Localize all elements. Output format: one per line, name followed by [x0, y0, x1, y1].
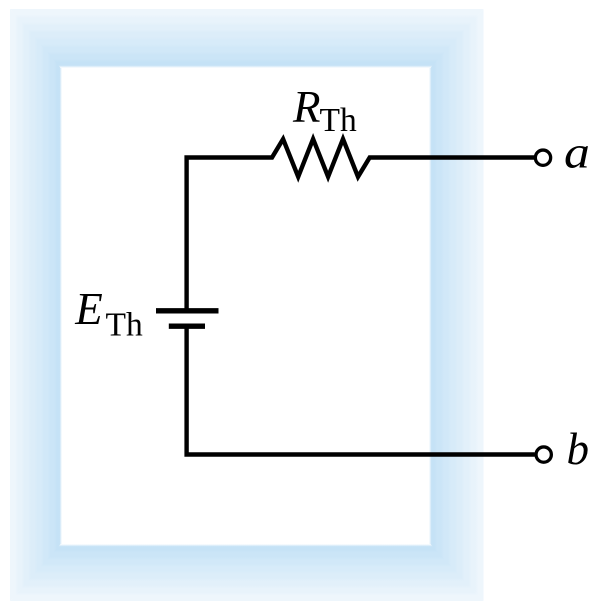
battery E_Th short plate — [169, 324, 205, 329]
frame right band — [429, 9, 484, 601]
svg-text:E: E — [74, 284, 103, 334]
battery E_Th long plate — [156, 308, 219, 313]
svg-text:Th: Th — [106, 307, 143, 344]
frame bottom band — [10, 544, 484, 601]
terminal b circle — [536, 447, 551, 462]
svg-text:a: a — [564, 129, 590, 178]
frame top band — [10, 9, 484, 68]
terminal a circle — [535, 150, 550, 165]
inner white box — [62, 68, 429, 544]
svg-text:b: b — [567, 424, 590, 474]
wire top rail with resistor zigzag — [187, 139, 535, 309]
svg-text:R: R — [292, 82, 321, 132]
frame left band — [10, 9, 62, 601]
svg-text:Th: Th — [320, 102, 357, 139]
wire bottom rail — [187, 329, 535, 455]
